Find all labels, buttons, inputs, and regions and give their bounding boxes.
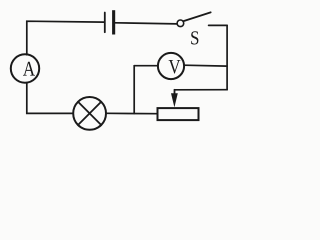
label S (191, 31, 198, 44)
battery B1 (105, 10, 115, 34)
wire ammeter bottom to lamp (27, 83, 73, 114)
wire battery to switch (115, 23, 177, 24)
ammeter A1 (11, 54, 39, 82)
wire to rheostat slider (175, 89, 228, 91)
wire lamp to rheostat (106, 112, 158, 114)
switch S (177, 12, 227, 26)
wire voltmeter right (184, 64, 227, 67)
wire voltmeter left (134, 65, 158, 67)
wire voltmeter branch vertical (133, 66, 135, 114)
wire right vertical (226, 25, 228, 89)
voltmeter V1 (158, 53, 184, 79)
lamp L1 (73, 97, 106, 130)
rheostat R1 (158, 90, 199, 120)
wire ammeter top to battery (27, 21, 104, 55)
